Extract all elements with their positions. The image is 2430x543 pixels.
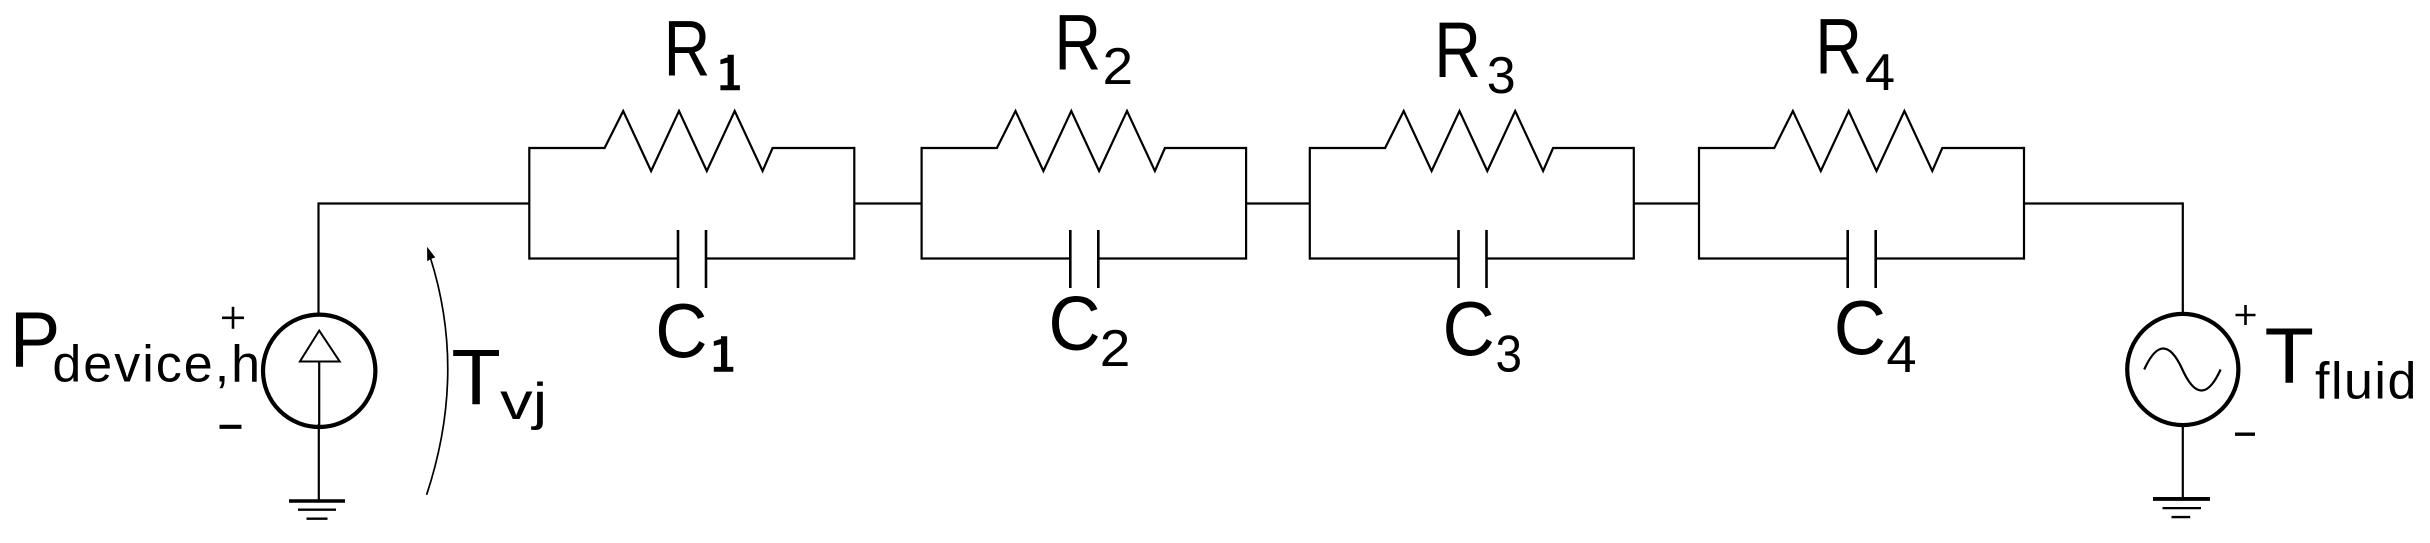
wire: voltage source top stub [2182,202,2184,315]
label T_fluid [2265,311,2418,411]
resistor R4 zigzag on top branch [1699,111,2024,171]
capacitor C2 plates [1070,230,1098,288]
RC stage 1: left vertical wire [528,147,530,260]
wire: bottom branch left of capacitor C2 [922,257,1071,259]
svg-text:T: T [451,333,501,422]
label R3 [1434,5,1515,105]
svg-text:C: C [1048,281,1100,367]
minus sign at voltage source [2235,433,2255,436]
svg-text:device,h: device,h [52,336,262,394]
wire: bottom branch right of capacitor C2 [1098,257,1246,259]
wire: bottom branch left of capacitor C4 [1699,257,1848,259]
svg-text:fluid: fluid [2315,353,2418,411]
svg-text:3: 3 [1496,325,1523,383]
voltage source T_fluid circle [2127,314,2238,425]
ground symbol at current source [289,501,345,519]
RC stage 4: right vertical wire [2023,147,2025,260]
capacitor C3 plates [1459,230,1487,288]
arrow: Tvj measurement arc [427,258,448,495]
capacitor C1 plates [678,230,706,288]
label C1 [655,288,733,374]
RC stage 3: right vertical wire [1633,147,1635,260]
svg-text:T: T [2265,311,2315,400]
svg-text:2: 2 [1103,38,1134,96]
resistor R1 zigzag on top branch [529,111,854,171]
wire: bottom branch right of capacitor C3 [1487,257,1634,259]
wire: stage 1 to stage 2 [854,202,921,204]
capacitor C4 plates [1848,230,1876,288]
wire: bottom branch right of capacitor C4 [1876,257,2024,259]
svg-text:C: C [1443,286,1495,372]
sine symbol inside voltage source [2144,349,2220,391]
wire: voltage source to ground [2182,424,2184,498]
svg-text:vj: vj [500,373,547,431]
svg-text:2: 2 [1100,320,1131,378]
svg-text:R: R [1815,2,1862,91]
label R4 [1815,2,1895,103]
svg-text:C: C [655,288,707,374]
svg-text:R: R [1434,5,1481,94]
RC stage 4: left vertical wire [1698,147,1700,260]
wire: bottom branch left of capacitor C1 [529,257,678,259]
RC stage 2: left vertical wire [920,147,922,260]
wire: current source to ground [318,424,320,500]
label C4 [1834,286,1917,385]
ground symbol at voltage source [2153,499,2210,517]
RC stage 1: right vertical wire [853,147,855,260]
label C3 [1443,286,1523,383]
svg-text:4: 4 [1886,326,1916,384]
label P_device,h [10,295,262,394]
RC stage 3: left vertical wire [1309,147,1311,260]
resistor R2 zigzag on top branch [922,111,1247,171]
svg-text:R: R [664,3,711,92]
RC stage 2: right vertical wire [1245,147,1247,260]
label R1 [664,3,740,92]
svg-text:4: 4 [1865,44,1895,102]
minus sign at current source [220,425,242,429]
wire: stage 4 to voltage source corner [2024,202,2183,204]
wire: bottom branch left of capacitor C3 [1310,257,1459,259]
arrow head of Tvj arc [427,247,435,261]
wire: stage 2 to stage 3 [1246,202,1310,204]
label C2 [1048,281,1130,378]
wire: current source top stub [317,202,319,315]
svg-text:C: C [1834,286,1886,372]
svg-text:R: R [1054,0,1101,87]
current source arrow: vertical line [318,362,320,427]
label T_vj [451,333,547,431]
wire: stage 3 to stage 4 [1634,202,1699,204]
wire: node Tvj horizontal, current source to stage 1 [319,202,530,204]
current source P_device,h circle [263,315,375,427]
resistor R3 zigzag on top branch [1310,111,1634,171]
svg-text:3: 3 [1487,47,1516,105]
current source arrow head triangle [300,331,340,362]
plus sign at current source [222,307,244,329]
wire: bottom branch right of capacitor C1 [706,257,854,259]
label R2 [1054,0,1133,96]
plus sign at voltage source [2236,305,2256,325]
